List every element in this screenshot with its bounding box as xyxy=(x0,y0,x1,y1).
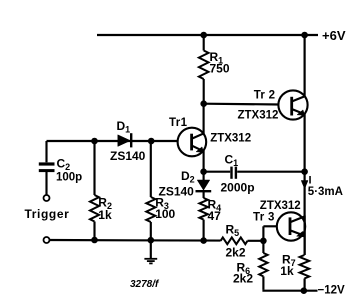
svg-text:1k: 1k xyxy=(98,208,112,222)
svg-text:3278/f: 3278/f xyxy=(130,279,160,290)
svg-text:I: I xyxy=(309,174,312,186)
svg-text:100: 100 xyxy=(155,207,175,221)
svg-text:+6V: +6V xyxy=(322,28,346,43)
svg-text:100p: 100p xyxy=(56,172,82,184)
svg-text:Trigger: Trigger xyxy=(25,207,70,221)
svg-text:5·3mA: 5·3mA xyxy=(308,186,343,198)
svg-text:Tr 2: Tr 2 xyxy=(254,90,276,102)
svg-text:1k: 1k xyxy=(280,264,294,278)
svg-text:ZTX312: ZTX312 xyxy=(260,200,301,212)
svg-text:ZTX312: ZTX312 xyxy=(238,110,279,122)
svg-text:2k2: 2k2 xyxy=(226,246,246,260)
svg-text:Tr 3: Tr 3 xyxy=(253,211,275,223)
svg-text:ZTX312: ZTX312 xyxy=(210,133,251,145)
svg-text:2000p: 2000p xyxy=(221,181,255,195)
svg-text:Tr1: Tr1 xyxy=(169,117,188,129)
svg-text:−12V: −12V xyxy=(318,284,346,296)
svg-text:750: 750 xyxy=(210,62,230,76)
svg-text:ZS140: ZS140 xyxy=(159,185,195,199)
svg-text:ZS140: ZS140 xyxy=(110,149,146,163)
svg-text:47: 47 xyxy=(208,209,222,223)
svg-text:2k2: 2k2 xyxy=(233,272,253,286)
